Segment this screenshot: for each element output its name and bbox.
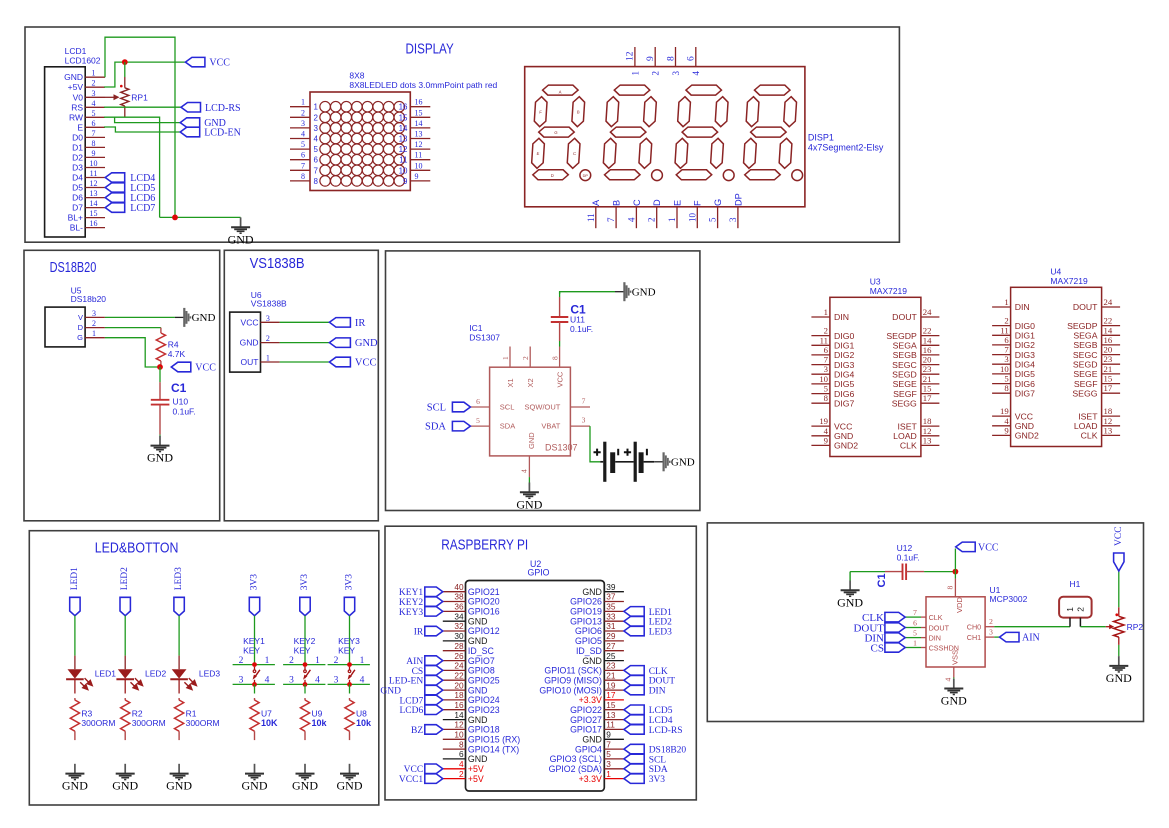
svg-text:GND: GND	[468, 685, 488, 695]
svg-text:GPIO3 (SCL): GPIO3 (SCL)	[550, 754, 602, 764]
svg-text:6: 6	[459, 749, 464, 759]
svg-text:7: 7	[824, 355, 829, 365]
svg-text:DISPLAY: DISPLAY	[406, 41, 454, 57]
svg-text:14: 14	[399, 124, 408, 133]
flag GND (U2 left)	[425, 685, 443, 695]
svg-text:LCD7: LCD7	[130, 203, 155, 214]
svg-text:SDA: SDA	[425, 422, 446, 433]
svg-text:GND: GND	[242, 779, 268, 793]
DISP1 top pin 9	[654, 47, 656, 67]
svg-text:3: 3	[266, 314, 270, 323]
flag CS (U2 left)	[425, 666, 443, 676]
svg-text:DIG5: DIG5	[1015, 369, 1035, 379]
DISP1 bottom pin A/11	[595, 207, 597, 228]
svg-text:23: 23	[1104, 354, 1113, 364]
U3 pin 2 DIG0	[811, 335, 830, 337]
DISPLAY section frame	[25, 27, 899, 242]
svg-text:3: 3	[314, 124, 319, 133]
svg-text:+3.3V: +3.3V	[579, 695, 602, 705]
svg-text:14: 14	[1104, 325, 1113, 335]
svg-text:3: 3	[1004, 354, 1008, 364]
svg-text:MAX7219: MAX7219	[870, 286, 908, 296]
svg-text:4: 4	[626, 217, 636, 222]
svg-text:11: 11	[90, 169, 98, 178]
svg-text:GPIO6: GPIO6	[575, 626, 602, 636]
LED matrix pin 13 (right)	[410, 138, 430, 140]
U2 pin 35 GPIO19 (right)	[604, 610, 624, 612]
svg-text:1: 1	[92, 69, 96, 78]
wire E to LCD-EN flag	[104, 127, 180, 132]
svg-text:1: 1	[913, 639, 917, 648]
svg-text:4: 4	[301, 130, 305, 139]
flag LCD4	[105, 173, 125, 182]
svg-text:VCC: VCC	[1114, 526, 1124, 546]
RASPBERRY PI section frame	[385, 526, 696, 800]
svg-text:DIG0: DIG0	[834, 331, 854, 341]
LED matrix pin 15 (right)	[410, 116, 430, 118]
svg-text:DOUT: DOUT	[1073, 302, 1098, 312]
capacitor U11	[559, 297, 561, 317]
svg-text:SEGD: SEGD	[1073, 359, 1098, 369]
U4 pin 18 ISET	[1102, 415, 1121, 417]
svg-text:KEY3: KEY3	[338, 636, 360, 646]
LED matrix pin 4 (left)	[290, 138, 310, 140]
svg-text:16: 16	[399, 103, 408, 112]
flag VCC (MCP3002)	[956, 542, 976, 552]
svg-text:2: 2	[289, 656, 294, 666]
svg-text:U12: U12	[897, 543, 913, 553]
flag DS18B20 (U2 right)	[624, 744, 644, 754]
svg-text:ID_SC: ID_SC	[468, 646, 495, 656]
svg-text:10: 10	[1000, 364, 1009, 374]
svg-text:KEY2: KEY2	[294, 636, 316, 646]
LED&BOTTON section frame	[29, 531, 379, 805]
U2 pin 33 GPIO13 (right)	[604, 620, 624, 622]
LED matrix pin 3 (left)	[290, 127, 310, 129]
svg-text:5: 5	[913, 629, 917, 638]
U4 pin 2 DIG0	[992, 325, 1011, 327]
svg-text:MCP3002: MCP3002	[990, 594, 1028, 604]
U3 pin 18 ISET	[921, 425, 940, 427]
wire KEY3 to U8	[349, 684, 351, 693]
svg-text:GND: GND	[147, 451, 173, 465]
svg-text:15: 15	[415, 108, 423, 117]
svg-text:DIG5: DIG5	[834, 379, 854, 389]
flag 3V3 (KEY1)	[249, 597, 259, 615]
svg-text:VBAT: VBAT	[541, 422, 560, 431]
svg-text:KEY: KEY	[243, 646, 260, 656]
svg-text:9: 9	[824, 435, 828, 445]
svg-text:7: 7	[1004, 345, 1009, 355]
U1 pin 7 CLK	[921, 616, 926, 618]
svg-text:GND: GND	[671, 457, 695, 469]
svg-text:LCD-EN: LCD-EN	[204, 128, 241, 139]
svg-text:3: 3	[92, 89, 96, 98]
U4 pin 9 GND2	[992, 434, 1011, 436]
wire RP1 top to VCC node	[124, 62, 126, 77]
svg-text:VCC: VCC	[834, 421, 852, 431]
svg-text:19: 19	[819, 416, 828, 426]
LED matrix pin 16 (right)	[410, 106, 430, 108]
U2 pin 31 GPIO6 (right)	[604, 630, 624, 632]
wire LED3 to LED	[178, 616, 180, 656]
ground GND (U1)	[953, 679, 955, 689]
U2 pin 23 GPIO11 (SCK) (right)	[604, 669, 624, 671]
svg-text:12: 12	[1104, 416, 1113, 426]
svg-text:6: 6	[1004, 335, 1009, 345]
flag LED-EN (U2 left)	[425, 676, 443, 686]
capacitor U10	[159, 382, 161, 399]
svg-text:4: 4	[520, 469, 529, 473]
svg-text:1: 1	[630, 71, 640, 76]
wire GND to U12	[850, 571, 885, 573]
svg-text:GND: GND	[582, 656, 602, 666]
flag DIN (U2 right)	[624, 685, 644, 695]
flag 3V3 (KEY2)	[300, 597, 310, 615]
U2 pin 7 GPIO4 (right)	[604, 748, 624, 750]
U2 pin 9 GND (right)	[604, 738, 624, 740]
svg-text:VCC: VCC	[355, 358, 377, 369]
svg-text:GND: GND	[468, 754, 488, 764]
svg-text:GPIO7: GPIO7	[468, 656, 495, 666]
svg-text:6: 6	[476, 397, 480, 406]
U2 pin 19 GPIO10 (MOSI) (right)	[604, 689, 624, 691]
svg-text:32: 32	[454, 621, 464, 631]
svg-text:CH1: CH1	[967, 633, 981, 642]
LCD1 pin 13 D6	[85, 197, 105, 199]
svg-text:D2: D2	[72, 152, 83, 162]
svg-text:15: 15	[399, 113, 408, 122]
IC1 pin 7 SQW/OUT	[570, 406, 590, 408]
flag LCD-EN	[180, 127, 200, 137]
U3 pin 17 SEGG	[921, 402, 940, 404]
flag DOUT (MCP left)	[885, 623, 905, 632]
U3 pin 5 DIG6	[811, 393, 830, 395]
svg-text:GPIO11 (SCK): GPIO11 (SCK)	[544, 666, 602, 676]
svg-text:GND: GND	[62, 779, 88, 793]
svg-text:LED3: LED3	[199, 668, 221, 678]
svg-text:2: 2	[647, 218, 657, 223]
svg-text:11: 11	[586, 213, 596, 222]
svg-text:9: 9	[415, 172, 419, 181]
svg-text:IR: IR	[355, 318, 366, 329]
U2 pin 14 GND (left)	[443, 719, 466, 721]
svg-text:15: 15	[923, 384, 932, 394]
7-segment DP circle 4	[792, 170, 803, 181]
svg-text:2: 2	[824, 326, 828, 336]
svg-text:KEY1: KEY1	[243, 636, 265, 646]
svg-text:6: 6	[92, 119, 96, 128]
svg-text:BL+: BL+	[68, 213, 83, 223]
svg-text:10: 10	[454, 730, 464, 740]
svg-text:35: 35	[606, 602, 616, 612]
svg-text:GND: GND	[837, 595, 863, 609]
svg-text:4.7K: 4.7K	[168, 349, 186, 359]
svg-text:1: 1	[315, 656, 320, 666]
U1 pin 5 DIN	[921, 637, 926, 639]
svg-text:U9: U9	[312, 708, 323, 718]
svg-text:GPIO5: GPIO5	[575, 636, 602, 646]
svg-text:GND: GND	[355, 338, 378, 349]
LED matrix body	[310, 92, 410, 191]
svg-text:VCC: VCC	[404, 765, 424, 775]
svg-text:LED3: LED3	[174, 567, 184, 590]
U1 pin 4 VSS	[953, 667, 955, 678]
U4 pin 1 DIN	[992, 306, 1011, 308]
LCD1 pin 14 D7	[85, 207, 105, 209]
svg-text:R3: R3	[81, 708, 92, 718]
svg-text:D3: D3	[72, 163, 83, 173]
flag VCC (VS1838B)	[329, 357, 350, 367]
junction VCC node	[122, 59, 128, 65]
LED matrix pin 1 (left)	[290, 106, 310, 108]
svg-text:DS18B20: DS18B20	[50, 260, 97, 276]
wire CLK to U1	[905, 616, 921, 618]
svg-text:9: 9	[606, 730, 611, 740]
U4 pin 20 SEGC	[1102, 354, 1121, 356]
LCD1 pin 4 RS	[85, 106, 105, 108]
svg-text:VCC: VCC	[241, 317, 259, 327]
svg-text:KEY: KEY	[294, 646, 311, 656]
svg-text:VCC: VCC	[978, 543, 999, 554]
LED matrix pin 11 (right)	[410, 159, 430, 161]
svg-text:VS1838B: VS1838B	[250, 256, 305, 272]
LCD1 pin 2 +5V	[85, 86, 105, 88]
DISP1 bottom pin G/5	[717, 207, 719, 228]
svg-text:2: 2	[459, 769, 464, 779]
U1 pin 8 VDD	[954, 579, 956, 597]
junction R4/VCC/C1	[157, 364, 163, 370]
svg-text:36: 36	[454, 602, 464, 612]
wire RS to LCD-RS	[104, 106, 181, 108]
svg-text:3: 3	[606, 759, 611, 769]
svg-text:GND: GND	[240, 338, 259, 348]
flag GND (LCD RW)	[180, 118, 200, 128]
svg-text:GPIO4: GPIO4	[575, 744, 602, 754]
svg-text:18: 18	[1104, 406, 1113, 416]
7-segment digit 3	[674, 85, 729, 180]
potentiometer RP1	[121, 88, 129, 106]
svg-text:300ORM: 300ORM	[132, 718, 166, 728]
svg-text:7: 7	[913, 608, 917, 617]
svg-text:DP: DP	[733, 193, 743, 206]
svg-text:GND2: GND2	[1015, 431, 1039, 441]
svg-text:GPIO20: GPIO20	[468, 597, 500, 607]
svg-text:28: 28	[454, 641, 464, 651]
svg-text:DIN: DIN	[929, 633, 941, 642]
svg-text:24: 24	[923, 307, 932, 317]
svg-text:VCC: VCC	[1015, 411, 1033, 421]
svg-text:BL-: BL-	[70, 223, 83, 233]
svg-text:11: 11	[399, 156, 408, 165]
IC1 pin 3 VBAT	[570, 425, 590, 427]
svg-text:GND: GND	[64, 72, 83, 82]
svg-text:10: 10	[415, 161, 423, 170]
svg-text:4: 4	[360, 675, 365, 685]
7-segment DP circle 1	[580, 170, 591, 181]
svg-text:C: C	[632, 199, 642, 206]
svg-text:U10: U10	[173, 397, 189, 407]
svg-text:GPIO18: GPIO18	[468, 725, 500, 735]
U3 pin 15 SEGF	[921, 393, 940, 395]
wire VBAT to battery	[590, 426, 600, 462]
svg-text:DIG2: DIG2	[1015, 340, 1035, 350]
DISP1 top pin 8	[675, 47, 677, 67]
switch KEY1 rails	[233, 664, 275, 666]
svg-text:GPIO22: GPIO22	[570, 705, 602, 715]
svg-text:8: 8	[459, 739, 464, 749]
svg-text:8: 8	[946, 586, 955, 590]
wire LED to R1	[178, 680, 180, 694]
LED LED1	[74, 656, 76, 670]
U3 pin 16 SEGB	[921, 354, 940, 356]
DISP1 top pin 12	[634, 47, 636, 67]
svg-text:BZ: BZ	[411, 726, 423, 736]
svg-text:12: 12	[454, 720, 464, 730]
flag LCD5 (U2 right)	[624, 705, 644, 715]
svg-text:3: 3	[301, 119, 305, 128]
svg-text:GPIO27: GPIO27	[570, 715, 602, 725]
svg-text:DIN: DIN	[649, 687, 666, 697]
DISP1 bottom pin E/1	[676, 207, 678, 228]
svg-text:DIG7: DIG7	[1015, 388, 1035, 398]
U2 pin 16 GPIO23 (left)	[443, 709, 466, 711]
svg-text:17: 17	[923, 393, 932, 403]
svg-text:D1: D1	[72, 142, 83, 152]
switch KEY1 junctions	[252, 662, 257, 667]
U2 pin 8 GPIO14 (TX) (left)	[443, 748, 466, 750]
svg-text:13: 13	[90, 189, 98, 198]
svg-text:SEGE: SEGE	[893, 379, 917, 389]
wire CH0 to H1	[994, 626, 1070, 628]
U2 pin 37 GPIO26 (right)	[604, 601, 624, 603]
svg-text:DIG2: DIG2	[834, 350, 854, 360]
U2 pin 11 GPIO17 (right)	[604, 728, 624, 730]
svg-text:AIN: AIN	[406, 657, 423, 667]
resistor U9	[304, 698, 306, 700]
svg-text:GPIO16: GPIO16	[468, 607, 500, 617]
svg-text:LOAD: LOAD	[1074, 421, 1098, 431]
7-segment digit 2	[602, 85, 657, 180]
svg-text:22: 22	[1104, 316, 1113, 326]
svg-text:2: 2	[334, 656, 339, 666]
svg-text:DOUT: DOUT	[649, 677, 676, 687]
U5 pin 2 D	[85, 327, 105, 329]
svg-text:1: 1	[606, 769, 611, 779]
potentiometer RP2	[1118, 607, 1120, 616]
svg-text:GPIO: GPIO	[528, 568, 550, 578]
U3 pin 8 DIG7	[811, 402, 830, 404]
svg-text:20: 20	[1104, 345, 1113, 355]
svg-text:LED1: LED1	[649, 608, 672, 618]
LED matrix pin 12 (right)	[410, 148, 430, 150]
U2 pin 32 GPIO12 (left)	[443, 630, 466, 632]
U3 pin 6 DIG2	[811, 354, 830, 356]
svg-text:KEY2: KEY2	[399, 598, 424, 608]
wire 3V3 to KEY3	[349, 616, 351, 665]
svg-text:20: 20	[923, 355, 932, 365]
svg-text:D: D	[78, 323, 84, 332]
svg-text:RASPBERRY PI: RASPBERRY PI	[441, 538, 528, 554]
svg-text:27: 27	[606, 641, 616, 651]
svg-text:19: 19	[606, 680, 616, 690]
svg-text:24: 24	[454, 661, 464, 671]
svg-text:34: 34	[454, 611, 464, 621]
LCD1 pin 15 BL+	[85, 217, 105, 219]
svg-text:SEGA: SEGA	[1073, 331, 1097, 341]
connector LCD1 body	[45, 67, 86, 237]
svg-text:40: 40	[454, 582, 464, 592]
svg-text:V0: V0	[73, 92, 84, 102]
svg-text:33: 33	[606, 611, 616, 621]
svg-text:GPIO25: GPIO25	[468, 675, 500, 685]
svg-text:GND: GND	[337, 779, 363, 793]
svg-text:1: 1	[314, 103, 319, 112]
LED matrix pin 6 (left)	[290, 159, 310, 161]
svg-text:GND: GND	[632, 287, 656, 299]
svg-text:GPIO2 (SDA): GPIO2 (SDA)	[549, 764, 602, 774]
svg-text:9: 9	[1004, 425, 1008, 435]
svg-text:DIG3: DIG3	[1015, 350, 1035, 360]
svg-text:SDA: SDA	[649, 765, 668, 775]
ground arrow GND (battery)	[654, 461, 663, 463]
resistor R3	[74, 698, 76, 700]
wire KEY1 to U7	[254, 684, 256, 693]
svg-text:30: 30	[454, 631, 464, 641]
svg-text:7: 7	[92, 129, 96, 138]
wire LED to R2	[124, 680, 126, 694]
potentiometer RP2 wiper	[1106, 626, 1110, 628]
LED matrix pin 5 (left)	[290, 148, 310, 150]
svg-text:12: 12	[90, 179, 98, 188]
svg-text:0.1uF.: 0.1uF.	[570, 324, 593, 334]
svg-text:SDA: SDA	[500, 422, 515, 431]
U2 pin 38 GPIO20 (left)	[443, 601, 466, 603]
wire U11 to IC1 VCC	[559, 341, 561, 347]
U4 pin 7 DIG3	[992, 354, 1011, 356]
svg-text:3: 3	[289, 675, 294, 685]
ground GND (KEY1)	[254, 764, 256, 774]
svg-text:4: 4	[824, 426, 829, 436]
svg-text:13: 13	[399, 135, 408, 144]
svg-text:VCC: VCC	[209, 58, 230, 69]
svg-text:KEY: KEY	[338, 646, 355, 656]
svg-text:4: 4	[1004, 416, 1009, 426]
wire +5V pin2 to VCC node	[104, 62, 185, 87]
switch KEY2 lever	[304, 667, 306, 670]
svg-text:10: 10	[399, 166, 408, 175]
svg-text:GND: GND	[292, 779, 318, 793]
svg-text:300ORM: 300ORM	[186, 718, 220, 728]
svg-text:SCL: SCL	[427, 403, 446, 414]
svg-text:1: 1	[824, 307, 828, 317]
flag AIN	[1000, 632, 1020, 642]
svg-text:OUT: OUT	[241, 357, 259, 367]
svg-text:GPIO8: GPIO8	[468, 666, 495, 676]
svg-text:CLK: CLK	[900, 441, 917, 451]
U2 pin 26 GPIO7 (left)	[443, 660, 466, 662]
DISP1 bottom pin DP/3	[737, 207, 739, 228]
svg-text:9: 9	[403, 177, 408, 186]
svg-text:3: 3	[582, 416, 586, 425]
U2 pin 21 GPIO9 (MISO) (right)	[604, 679, 624, 681]
7-segment digit 4	[742, 85, 797, 180]
flag SDA (U2 right)	[624, 764, 644, 774]
svg-text:5: 5	[92, 109, 96, 118]
svg-text:R1: R1	[186, 708, 197, 718]
svg-text:GND: GND	[582, 587, 602, 597]
svg-text:38: 38	[454, 592, 464, 602]
